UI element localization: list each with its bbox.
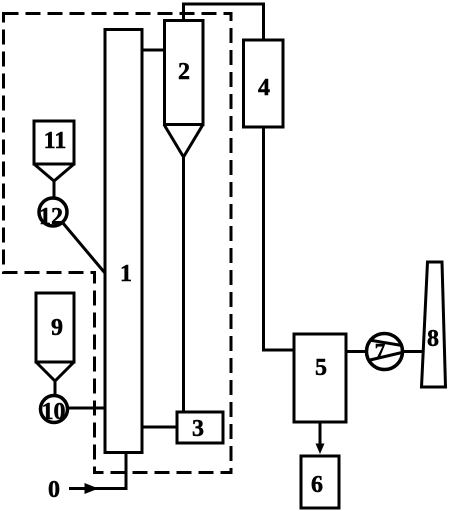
svg-text:6: 6: [311, 472, 323, 498]
svg-text:0: 0: [48, 477, 60, 503]
svg-text:11: 11: [44, 128, 67, 154]
svg-text:7: 7: [375, 339, 386, 363]
svg-text:12: 12: [39, 204, 63, 230]
svg-text:5: 5: [315, 355, 327, 381]
svg-text:8: 8: [427, 326, 439, 352]
svg-text:9: 9: [51, 315, 63, 341]
svg-text:1: 1: [120, 261, 132, 287]
svg-text:3: 3: [192, 416, 204, 442]
svg-text:2: 2: [178, 59, 190, 85]
svg-text:10: 10: [42, 399, 66, 425]
svg-text:4: 4: [258, 75, 270, 101]
